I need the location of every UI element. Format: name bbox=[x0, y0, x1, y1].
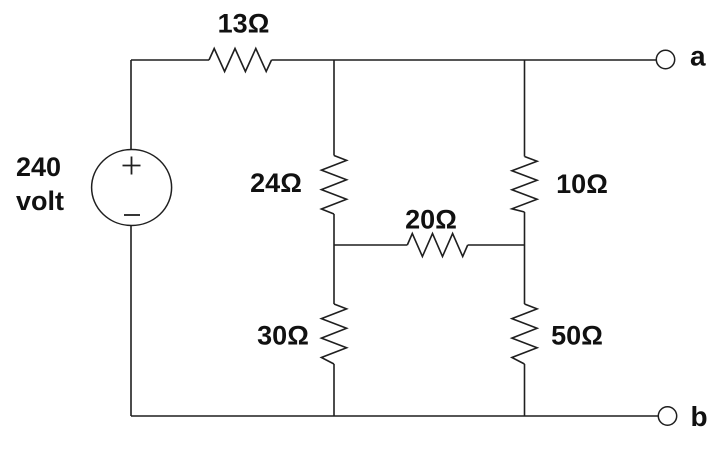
wire middle horizontal left (node to 20-ohm) bbox=[334, 244, 407, 246]
svg-text:a: a bbox=[690, 41, 706, 72]
svg-text:20Ω: 20Ω bbox=[405, 205, 457, 235]
resistor R 10 ohm (vertical zigzag) bbox=[512, 157, 537, 213]
svg-text:b: b bbox=[691, 401, 708, 432]
terminal a (open circle) bbox=[656, 50, 674, 68]
svg-text:10Ω: 10Ω bbox=[556, 169, 608, 199]
wire left vertical upper (top wire down to source +) bbox=[130, 60, 132, 150]
svg-text:24Ω: 24Ω bbox=[250, 168, 302, 198]
wire branch right-upper (top wire down to 10-ohm) bbox=[524, 60, 526, 157]
svg-text:13Ω: 13Ω bbox=[218, 9, 270, 39]
wire middle horizontal right (20-ohm to right node) bbox=[468, 244, 525, 246]
resistor R 50 ohm (vertical zigzag) bbox=[512, 304, 537, 364]
wire 30-ohm to bottom wire bbox=[333, 364, 335, 416]
svg-text:30Ω: 30Ω bbox=[257, 321, 309, 351]
wire left vertical lower (source - down to bottom wire) bbox=[130, 225, 132, 416]
wire branch right-lower (middle wire down to 50-ohm) bbox=[524, 245, 526, 304]
minus sign of source bbox=[124, 214, 140, 216]
resistor R 20 ohm (horizontal zigzag, middle wire) bbox=[407, 234, 467, 257]
svg-text:240: 240 bbox=[16, 152, 61, 182]
svg-text:volt: volt bbox=[16, 186, 64, 216]
svg-text:50Ω: 50Ω bbox=[551, 321, 603, 351]
wire 24-ohm to middle wire bbox=[333, 214, 335, 245]
wire 50-ohm to bottom wire bbox=[524, 364, 526, 416]
wire branch middle-lower (middle wire down to 30-ohm) bbox=[333, 245, 335, 304]
resistor R 13 ohm (horizontal zigzag, top wire) bbox=[209, 49, 272, 72]
wire top horizontal (13-ohm to terminal a) bbox=[272, 59, 657, 61]
node junction top wire at middle branch bbox=[333, 59, 335, 61]
terminal b (open circle) bbox=[658, 407, 676, 425]
wire 10-ohm to middle wire bbox=[524, 212, 526, 245]
wire bottom horizontal (left node to terminal b) bbox=[131, 415, 659, 417]
plus sign of source bbox=[123, 157, 141, 175]
voltage source V1 240 volt (circle) bbox=[92, 150, 172, 226]
resistor R 24 ohm (vertical zigzag) bbox=[321, 156, 346, 215]
wire branch middle-upper (top wire down to 24-ohm) bbox=[333, 60, 335, 156]
resistor R 30 ohm (vertical zigzag) bbox=[321, 304, 346, 364]
wire top-left horizontal (left node to 13-ohm resistor) bbox=[131, 59, 209, 61]
